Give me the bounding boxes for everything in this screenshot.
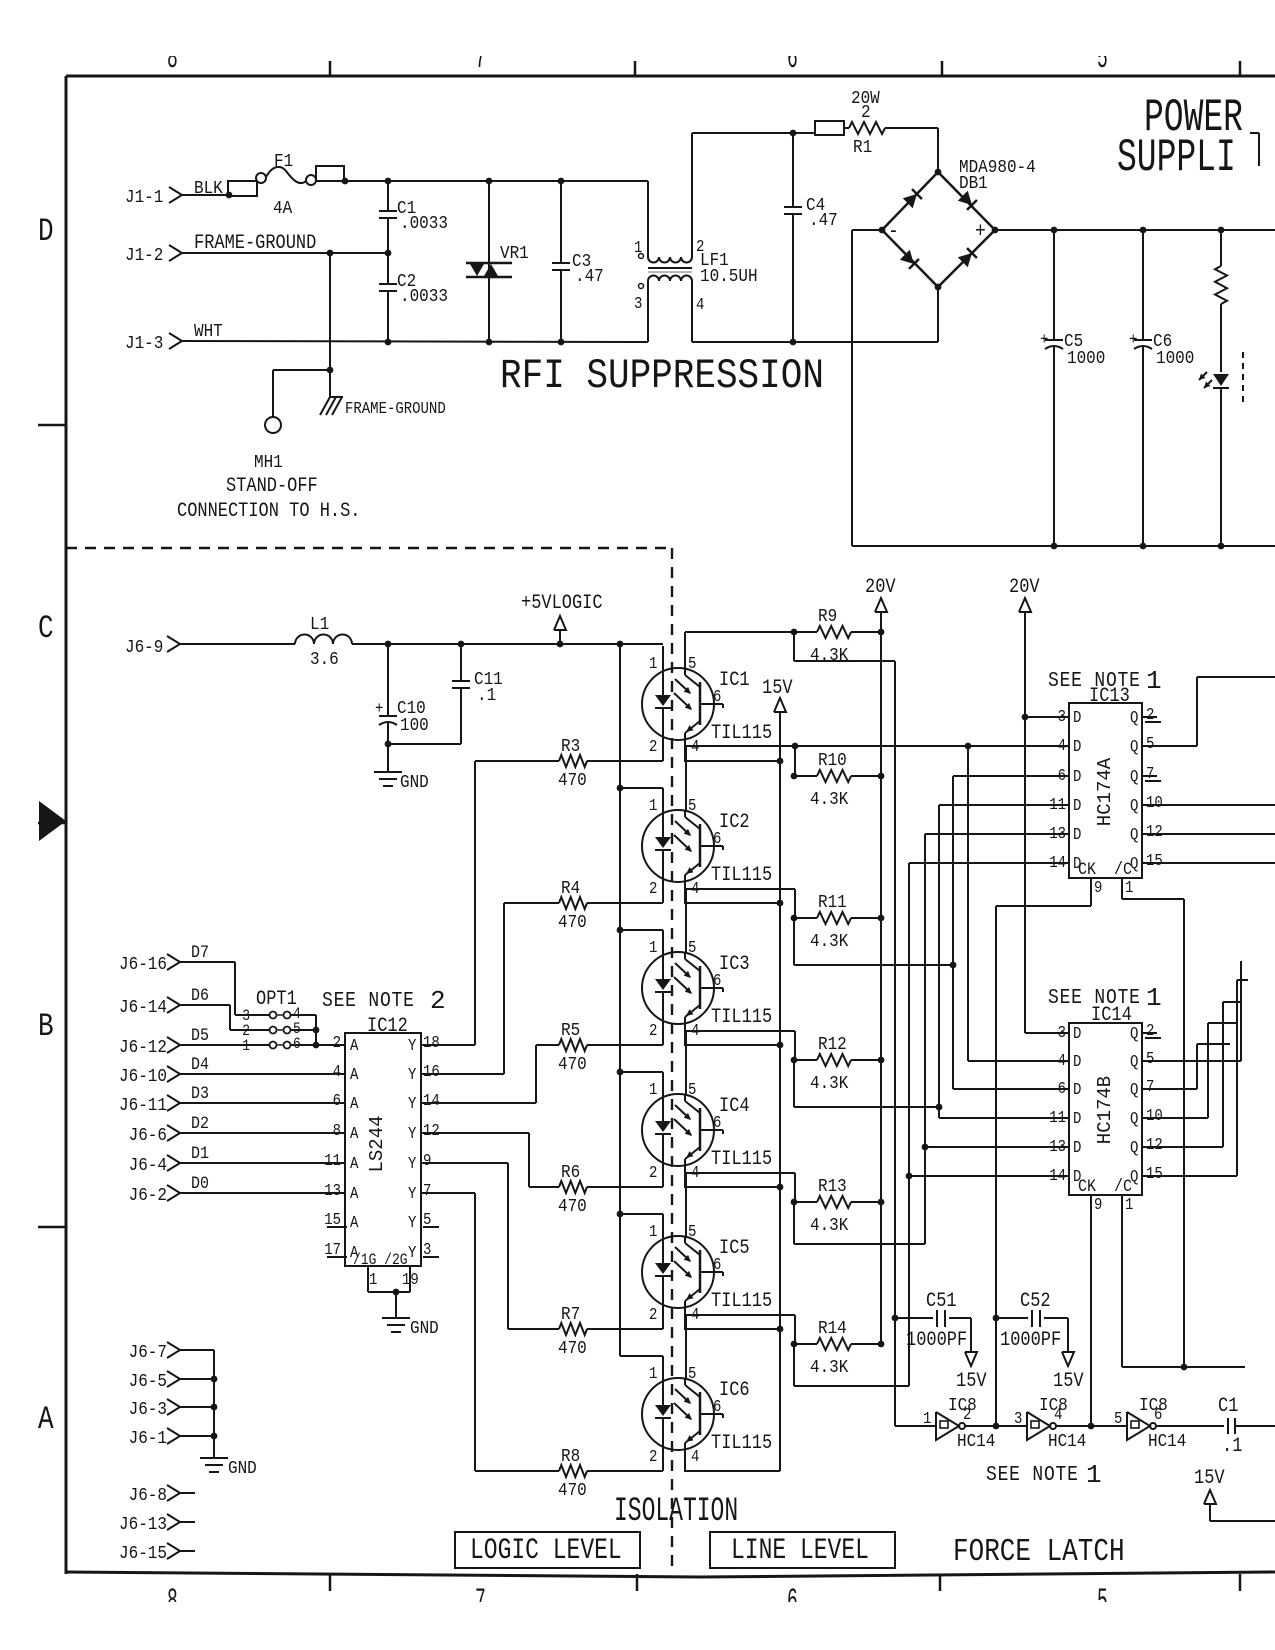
wire J6-11 data D3 <box>180 1083 345 1103</box>
power symbol 20V rail 2 <box>1009 576 1040 717</box>
svg-text:11: 11 <box>1049 795 1066 814</box>
svg-text:11: 11 <box>1049 1108 1066 1127</box>
svg-text:J6-8: J6-8 <box>129 1485 167 1507</box>
svg-text:12: 12 <box>423 1121 440 1140</box>
svg-text:TIL115: TIL115 <box>711 1432 772 1455</box>
svg-text:2: 2 <box>649 879 657 898</box>
svg-text:CK: CK <box>1078 859 1096 879</box>
svg-text:2: 2 <box>649 1163 657 1182</box>
svg-text:4: 4 <box>696 295 704 314</box>
svg-text:10: 10 <box>1146 793 1163 812</box>
resistor R4 470 <box>504 878 587 934</box>
svg-text:/C: /C <box>1114 1176 1132 1196</box>
connector pin J1-3 <box>125 333 182 355</box>
svg-text:RFI SUPPRESSION: RFI SUPPRESSION <box>500 353 824 400</box>
svg-text:CK: CK <box>1078 1176 1096 1196</box>
wire IC6 anode feed from +5V rail <box>620 1355 663 1357</box>
svg-text:HC14: HC14 <box>1048 1431 1086 1453</box>
svg-text:5: 5 <box>688 938 696 957</box>
svg-text:J6-13: J6-13 <box>119 1514 167 1536</box>
svg-text:TIL115: TIL115 <box>711 864 772 887</box>
wire fuse to LF1 pin1 (line input) <box>345 180 648 182</box>
wire IC12 Y9 output <box>421 1162 508 1164</box>
svg-text:1000: 1000 <box>1067 348 1105 370</box>
svg-text:.1: .1 <box>1222 1435 1242 1458</box>
optocoupler IC2 TIL115 <box>642 788 772 903</box>
svg-text:D: D <box>1073 737 1081 756</box>
wire IC5 data tap (D13) <box>794 834 1069 1244</box>
svg-text:1: 1 <box>634 238 642 257</box>
svg-text:.47: .47 <box>809 210 838 232</box>
wire IC6 collector jog <box>686 1315 795 1378</box>
wire IC14 Q15 output <box>1142 980 1248 1176</box>
wire IC4 emitter to 15V rail <box>684 1186 780 1188</box>
svg-text:2: 2 <box>861 102 871 124</box>
svg-text:A: A <box>350 1065 359 1084</box>
svg-text:6: 6 <box>1058 766 1066 785</box>
svg-text:IC8: IC8 <box>1039 1395 1068 1417</box>
svg-text:1: 1 <box>1086 1460 1102 1490</box>
svg-text:IC12: IC12 <box>367 1015 408 1038</box>
svg-text:J6-1: J6-1 <box>129 1428 167 1450</box>
svg-text:HC14: HC14 <box>1148 1431 1186 1453</box>
wire IC5 emitter to 15V rail <box>684 1328 780 1330</box>
svg-text:Q: Q <box>1130 825 1138 844</box>
frame-ground symbol <box>320 370 446 418</box>
connector pin J6-5 <box>129 1371 180 1393</box>
capacitor C5 1000 <box>1040 230 1105 546</box>
svg-text:D6: D6 <box>191 985 209 1005</box>
svg-text:J6-15: J6-15 <box>119 1543 167 1565</box>
wire J6-7 <box>180 1349 214 1351</box>
wire DC+ rail <box>995 227 1275 234</box>
wire IC2 collector jog <box>686 746 795 810</box>
svg-text:20V: 20V <box>865 576 896 599</box>
connector pin J6-2 <box>129 1185 180 1207</box>
svg-text:J6-3: J6-3 <box>129 1399 167 1421</box>
dashed isolation boundary <box>66 548 672 1572</box>
svg-text:3.6: 3.6 <box>310 649 339 671</box>
optocoupler IC4 TIL115 <box>642 1072 772 1187</box>
svg-text:4A: 4A <box>273 198 293 220</box>
connector pin J6-10 <box>119 1066 180 1088</box>
svg-text:20V: 20V <box>1009 576 1040 599</box>
svg-text:A: A <box>350 1184 359 1203</box>
svg-text:LS244: LS244 <box>366 1115 388 1172</box>
connector pin J6-16 <box>119 954 180 976</box>
svg-text:100: 100 <box>400 715 429 737</box>
wire IC5 cathode to R7 <box>587 1328 663 1330</box>
wire IC14 Q7 output <box>1142 1044 1230 1089</box>
wire J6-2 data D0 <box>180 1173 345 1193</box>
inverter IC8 pins 3-4 HC14 <box>1014 1395 1086 1453</box>
jumper block OPT1 <box>242 988 301 1056</box>
svg-text:D7: D7 <box>191 942 209 962</box>
svg-text:4.3K: 4.3K <box>810 1215 849 1237</box>
svg-text:14: 14 <box>1049 853 1066 872</box>
svg-text:D: D <box>1073 1138 1081 1157</box>
wire riser IC12 output to R4 <box>503 903 505 1074</box>
svg-text:10.5UH: 10.5UH <box>700 266 758 288</box>
svg-text:12: 12 <box>1146 1135 1163 1154</box>
svg-text:5: 5 <box>688 796 696 815</box>
svg-text:4: 4 <box>691 1447 699 1466</box>
svg-text:A: A <box>350 1154 359 1173</box>
wire IC13 /C line <box>1122 878 1184 1367</box>
wire inverter1 out to inverter2 in <box>965 1423 1027 1430</box>
svg-text:A: A <box>350 1036 359 1055</box>
resistor R14 4.3K <box>791 1318 885 1379</box>
resistor R12 4.3K <box>791 1034 885 1095</box>
svg-text:9: 9 <box>1094 1195 1102 1214</box>
wire J6-10 data D4 <box>180 1054 345 1074</box>
connector pin J6-3 <box>129 1399 180 1421</box>
hex latch IC13 HC174A <box>1048 666 1163 897</box>
wire R1 to bridge top <box>885 128 938 172</box>
svg-text:7: 7 <box>423 1181 431 1200</box>
standoff MH1 <box>177 417 360 522</box>
svg-text:D: D <box>38 212 54 250</box>
svg-text:2: 2 <box>649 1447 657 1466</box>
svg-text:Q: Q <box>1130 1080 1138 1099</box>
wire IC13 Q12 output <box>1142 833 1275 835</box>
svg-text:GND: GND <box>400 772 429 794</box>
wire IC13 Q10 output <box>1142 804 1275 806</box>
resistor R1 20W 2 <box>815 88 885 159</box>
svg-text:TIL115: TIL115 <box>711 1006 772 1029</box>
svg-text:IC4: IC4 <box>719 1095 750 1118</box>
connector pin J6-6 <box>129 1125 180 1147</box>
capacitor C1 .0033 <box>379 178 448 257</box>
svg-text:15V: 15V <box>762 677 793 700</box>
label SEE NOTE 1 bottom <box>986 1460 1102 1490</box>
svg-text:Y: Y <box>408 1124 416 1143</box>
svg-text:D: D <box>1073 708 1081 727</box>
connector pin J6-1 <box>129 1428 180 1450</box>
svg-text:D0: D0 <box>191 1173 209 1193</box>
svg-text:DB1: DB1 <box>959 173 988 195</box>
wire riser IC12 output to R7 <box>507 1163 509 1329</box>
svg-text:9: 9 <box>423 1151 431 1170</box>
svg-text:D: D <box>1073 1080 1081 1099</box>
resistor R9 4.3K <box>791 606 885 667</box>
resistor R6 470 <box>529 1162 587 1218</box>
wire riser IC12 output to R6 <box>528 1133 530 1187</box>
svg-text:1: 1 <box>649 1222 657 1241</box>
svg-text:5: 5 <box>1146 734 1154 753</box>
wire IC12 Y12 output <box>421 1132 529 1134</box>
svg-text:B: B <box>38 1007 54 1045</box>
inverter IC8 pins 5-6 HC14 <box>1114 1395 1186 1453</box>
resistor R8 470 <box>475 1446 587 1502</box>
svg-text:J6-9: J6-9 <box>125 637 163 659</box>
svg-text:15V: 15V <box>956 1370 987 1393</box>
svg-text:6: 6 <box>1058 1079 1066 1098</box>
svg-text:Y: Y <box>408 1154 416 1173</box>
wire IC14 Q2 stub <box>1142 1033 1161 1038</box>
svg-text:SUPPLI: SUPPLI <box>1117 133 1236 185</box>
wire IC3 anode feed from +5V rail <box>620 929 663 931</box>
svg-text:D4: D4 <box>191 1054 209 1074</box>
wire IC6 emitter to 15V rail <box>684 1470 780 1472</box>
zone letters D C B A <box>38 212 54 1438</box>
svg-text:D1: D1 <box>191 1143 209 1163</box>
bridge rectifier DB1 MDA980-4 <box>879 157 1036 291</box>
connector pin J6-4 <box>129 1155 180 1177</box>
svg-text:STAND-OFF: STAND-OFF <box>226 475 318 498</box>
zone digits bottom <box>167 1583 1108 1620</box>
connector pin J6-11 <box>119 1095 180 1117</box>
optocoupler IC1 TIL115 <box>642 646 772 761</box>
resistor R7 470 <box>508 1304 587 1360</box>
svg-text:.47: .47 <box>575 266 604 288</box>
svg-text:TIL115: TIL115 <box>711 1290 772 1313</box>
wire J6-5 <box>180 1378 214 1380</box>
wire IC1 emitter to 15V rail <box>684 760 780 762</box>
svg-text:5: 5 <box>688 1364 696 1383</box>
wire IC14 Q5 output <box>1142 961 1241 1061</box>
wire IC6 data tap (D14) <box>794 863 1069 1386</box>
wire IC12 Y7 output <box>421 1192 475 1194</box>
svg-text:4.3K: 4.3K <box>810 645 849 667</box>
wire IC13 Q2 stub <box>1142 717 1161 722</box>
wire riser IC12 output to R3 <box>474 761 476 1045</box>
svg-text:15V: 15V <box>1053 1370 1084 1393</box>
svg-text:1: 1 <box>649 1080 657 1099</box>
svg-text:470: 470 <box>558 1054 587 1076</box>
wire IC4 cathode to R6 <box>587 1186 663 1188</box>
svg-text:Y: Y <box>408 1213 416 1232</box>
svg-text:WHT: WHT <box>194 321 223 343</box>
svg-text:2: 2 <box>333 1033 341 1052</box>
svg-text:J6-12: J6-12 <box>119 1037 167 1059</box>
capacitor C2 .0033 <box>379 253 448 342</box>
svg-text:3: 3 <box>1058 707 1066 726</box>
wire IC14 Q12 output <box>1142 1002 1242 1147</box>
wire 20V rail 1 <box>880 632 882 1344</box>
svg-text:A: A <box>350 1124 359 1143</box>
svg-text:1: 1 <box>1125 878 1133 897</box>
svg-text:5: 5 <box>688 1222 696 1241</box>
connector pin J6-14 <box>119 997 180 1019</box>
svg-text:IC8: IC8 <box>948 1395 977 1417</box>
svg-text:1000PF: 1000PF <box>1000 1329 1061 1352</box>
svg-text:A: A <box>38 1400 54 1438</box>
wire J6-1 <box>180 1435 214 1437</box>
wire J6-12 data D5 <box>180 1025 270 1045</box>
wire IC12 Y16 output <box>421 1073 504 1075</box>
svg-text:VR1: VR1 <box>500 243 529 265</box>
svg-text:A: A <box>350 1094 359 1113</box>
svg-text:R1: R1 <box>853 137 872 159</box>
wire IC13 Q5 output <box>1142 677 1275 746</box>
svg-text:IC3: IC3 <box>719 953 750 976</box>
svg-text:1: 1 <box>1146 666 1162 696</box>
wire C10-C11 link <box>388 743 461 745</box>
common-mode choke LF1 10.5UH <box>634 133 758 342</box>
wire J1-1 to fuse, BLK <box>182 178 232 200</box>
svg-text:470: 470 <box>558 1480 587 1502</box>
wire IC1 collector to R9 <box>685 632 794 668</box>
svg-text:IC8: IC8 <box>1139 1395 1168 1417</box>
svg-text:-: - <box>888 220 899 244</box>
wire line rail LF1 pin4 to bridge <box>692 287 938 345</box>
capacitor C52 1000PF <box>993 1290 1085 1393</box>
svg-text:2: 2 <box>649 1021 657 1040</box>
svg-text:CONNECTION TO H.S.: CONNECTION TO H.S. <box>177 500 360 523</box>
svg-text:7: 7 <box>1146 1077 1154 1096</box>
svg-text:Q: Q <box>1130 1138 1138 1157</box>
wire IC12 pin15 pin17 stubs <box>327 1227 439 1257</box>
svg-text:J6-11: J6-11 <box>119 1095 167 1117</box>
hex latch IC14 HC174B <box>1048 983 1163 1214</box>
wire J6-4 data D1 <box>180 1143 345 1163</box>
wire LF1 pin2 to R1 <box>692 130 815 137</box>
svg-text:2: 2 <box>649 1305 657 1324</box>
svg-text:Q: Q <box>1130 1109 1138 1128</box>
svg-text:13: 13 <box>324 1181 341 1200</box>
title POWER SUPPLI(ES) <box>1117 93 1243 185</box>
svg-text:8: 8 <box>333 1121 341 1140</box>
inductor L1 3.6 <box>295 614 352 671</box>
resistor R5 470 <box>536 1020 587 1076</box>
capacitor C10 100 <box>375 644 429 747</box>
svg-text:D: D <box>1073 1024 1081 1043</box>
svg-text:1: 1 <box>649 1364 657 1383</box>
wire 15V emitter rail <box>777 758 784 1471</box>
bleeder resistor (cut at edge) <box>1215 230 1227 372</box>
wire IC5 anode feed from +5V rail <box>620 1213 663 1215</box>
cut-off component top right <box>1250 133 1259 166</box>
zone digits top <box>167 40 1108 77</box>
svg-text:4.3K: 4.3K <box>810 1073 849 1095</box>
svg-text:FORCE LATCH: FORCE LATCH <box>953 1534 1125 1570</box>
svg-text:470: 470 <box>558 770 587 792</box>
ground IC12 <box>382 1318 439 1340</box>
svg-text:+: + <box>975 220 986 244</box>
svg-text:D: D <box>1073 796 1081 815</box>
svg-text:4.3K: 4.3K <box>810 931 849 953</box>
svg-text:R9: R9 <box>818 606 837 628</box>
wire J6-16 data D7 <box>180 942 270 1015</box>
svg-text:18: 18 <box>423 1033 440 1052</box>
svg-text:2: 2 <box>430 986 446 1016</box>
wire IC3 data tap (D6) <box>794 776 1069 1089</box>
wire IC13 CK line <box>996 878 1091 1426</box>
svg-text:IC1: IC1 <box>719 669 750 692</box>
svg-text:TIL115: TIL115 <box>711 722 772 745</box>
svg-text:Q: Q <box>1130 737 1138 756</box>
wire riser IC12 output to R8 <box>474 1193 476 1471</box>
svg-text:1: 1 <box>1125 1195 1133 1214</box>
svg-text:LINE LEVEL: LINE LEVEL <box>731 1534 869 1568</box>
svg-text:3: 3 <box>1014 1409 1022 1428</box>
wire riser IC12 output to R5 <box>535 1045 537 1103</box>
svg-text:Q: Q <box>1130 767 1138 786</box>
svg-text:1: 1 <box>369 1270 377 1289</box>
svg-text:Y: Y <box>408 1184 416 1203</box>
wire IC1 cathode to R3 <box>587 760 663 762</box>
svg-text:C1: C1 <box>1218 1395 1238 1418</box>
wire IC3 cathode to R5 <box>587 1044 663 1046</box>
connector pin J6-7 <box>129 1342 180 1364</box>
optocoupler IC5 TIL115 <box>642 1214 772 1329</box>
wire IC4 anode feed from +5V rail <box>620 1071 663 1073</box>
svg-text:J1-3: J1-3 <box>125 333 163 355</box>
buffer IC12 LS244 <box>322 986 446 1289</box>
svg-text:+5VLOGIC: +5VLOGIC <box>521 592 603 615</box>
wire 20V rail 2 to D3 inputs <box>1022 714 1069 1033</box>
svg-text:3: 3 <box>1058 1023 1066 1042</box>
svg-text:Y: Y <box>408 1065 416 1084</box>
svg-text:16: 16 <box>423 1062 440 1081</box>
svg-text:J6-7: J6-7 <box>129 1342 167 1364</box>
wire ground bus J6 <box>213 1350 215 1457</box>
svg-text:1: 1 <box>1146 983 1162 1013</box>
svg-text:15: 15 <box>1146 851 1163 870</box>
svg-text:11: 11 <box>324 1151 341 1170</box>
capacitor C11 .1 <box>452 644 503 744</box>
power symbol +5VLOGIC <box>521 592 603 644</box>
wire WHT J1-3 to LF1 pin3 <box>182 321 648 346</box>
svg-text:LOGIC LEVEL: LOGIC LEVEL <box>470 1534 622 1568</box>
wire IC2 cathode to R4 <box>587 902 663 904</box>
fuse F1 4A <box>228 151 348 220</box>
varistor VR1 <box>466 178 529 342</box>
svg-text:Y: Y <box>408 1094 416 1113</box>
svg-text:MH1: MH1 <box>254 452 283 474</box>
resistor R10 4.3K <box>791 750 885 811</box>
wire OPT1 outputs to IC12 A1 <box>291 1015 346 1048</box>
svg-text:IC13: IC13 <box>1089 685 1130 708</box>
svg-text:5: 5 <box>688 654 696 673</box>
svg-text:D3: D3 <box>191 1083 209 1103</box>
capacitor C1x .1 (cut at edge) <box>1156 1395 1275 1458</box>
wire FRAME-GROUND J1-2 <box>182 232 388 257</box>
wire IC4 data tap (D11) <box>794 805 1069 1118</box>
svg-text:470: 470 <box>558 1196 587 1218</box>
svg-text:1: 1 <box>242 1038 250 1055</box>
capacitor C3 .47 <box>552 178 604 342</box>
ground below C10 <box>374 744 429 793</box>
capacitor C4 .47 <box>784 133 838 342</box>
label box LOGIC LEVEL <box>455 1532 640 1568</box>
resistor R11 4.3K <box>791 892 885 953</box>
svg-text:J6-10: J6-10 <box>119 1066 167 1088</box>
connector pin J6-12 <box>119 1037 180 1059</box>
wire J6-9 to L1 <box>180 643 295 645</box>
svg-text:IC2: IC2 <box>719 811 750 834</box>
svg-text:13: 13 <box>1049 1137 1066 1156</box>
svg-text:1: 1 <box>649 796 657 815</box>
resistor R13 4.3K <box>791 1176 885 1237</box>
svg-text:9: 9 <box>1094 878 1102 897</box>
svg-text:D: D <box>1073 1052 1081 1071</box>
svg-text:ISOLATION: ISOLATION <box>614 1492 738 1531</box>
svg-text:4.3K: 4.3K <box>810 1357 849 1379</box>
svg-text:BLK: BLK <box>194 178 223 200</box>
svg-text:1: 1 <box>923 1409 931 1428</box>
svg-text:HC174A: HC174A <box>1094 757 1116 826</box>
svg-text:L1: L1 <box>310 614 329 636</box>
inverter IC8 pins 1-2 HC14 <box>895 1395 995 1453</box>
svg-text:D: D <box>1073 825 1081 844</box>
svg-text:5: 5 <box>1146 1049 1154 1068</box>
page edge mask <box>0 0 1275 56</box>
svg-text:1: 1 <box>649 654 657 673</box>
svg-text:A: A <box>350 1213 359 1232</box>
wire IC6 cathode to R8 <box>587 1470 663 1472</box>
